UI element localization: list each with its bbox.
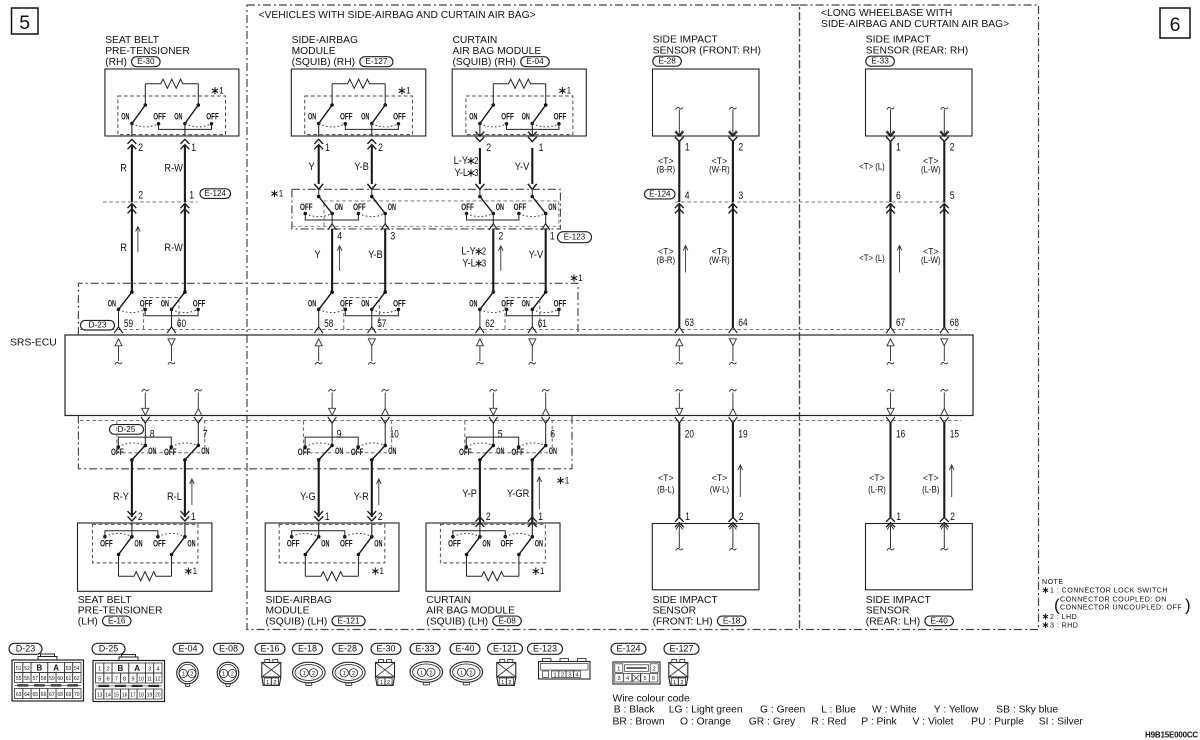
svg-text:W : White: W : White [872, 705, 917, 716]
svg-text:15: 15 [950, 428, 959, 440]
svg-text:<VEHICLES WITH SIDE-AIRBAG AND: <VEHICLES WITH SIDE-AIRBAG AND CURTAIN A… [259, 10, 536, 21]
svg-text:4: 4 [685, 190, 690, 202]
svg-text:MODULE: MODULE [292, 46, 336, 57]
svg-text:(: ( [1054, 596, 1060, 615]
svg-text:MODULE: MODULE [266, 606, 310, 617]
svg-text:12: 12 [155, 677, 161, 683]
svg-text:2: 2 [469, 670, 472, 676]
svg-text:2: 2 [231, 672, 234, 678]
svg-text:1: 1 [325, 142, 330, 154]
svg-text:E-30: E-30 [377, 644, 396, 654]
svg-text:5: 5 [98, 677, 101, 683]
svg-text:67: 67 [49, 692, 55, 698]
svg-text:5: 5 [19, 12, 30, 34]
svg-text:B: B [37, 664, 43, 673]
svg-text:2: 2 [138, 511, 143, 523]
svg-text:1: 1 [303, 671, 306, 677]
svg-text:<T>: <T> [869, 473, 885, 484]
svg-text:Y: Y [314, 249, 321, 261]
svg-text:OFF: OFF [501, 112, 514, 122]
svg-text:SENSOR: SENSOR [866, 606, 910, 617]
svg-text:<T> (L): <T> (L) [859, 253, 885, 264]
svg-text:(L-B): (L-B) [922, 485, 939, 496]
svg-text:SENSOR: SENSOR [653, 606, 697, 617]
svg-text:63: 63 [16, 692, 22, 698]
svg-text:2: 2 [138, 190, 143, 202]
svg-text:ON: ON [161, 298, 169, 308]
svg-text:(W-R): (W-R) [709, 255, 730, 266]
svg-text:OFF: OFF [300, 202, 313, 212]
svg-text:8: 8 [123, 677, 126, 683]
svg-text:64: 64 [738, 317, 747, 329]
svg-text:Y-GR: Y-GR [507, 488, 529, 500]
svg-text:Y-R: Y-R [354, 491, 369, 503]
svg-text:7: 7 [203, 428, 208, 440]
svg-text:1: 1 [222, 672, 225, 678]
svg-text:2: 2 [429, 670, 432, 676]
svg-text:ON: ON [388, 446, 396, 456]
svg-text:2: 2 [352, 671, 355, 677]
svg-text:61: 61 [66, 676, 72, 682]
svg-text:2: 2 [950, 142, 955, 154]
svg-text:OFF: OFF [393, 298, 406, 308]
svg-text:(L-W): (L-W) [921, 165, 941, 176]
svg-text:1: 1 [279, 189, 284, 200]
svg-text:52: 52 [24, 666, 30, 672]
svg-text:ON: ON [121, 112, 129, 122]
svg-text:2: 2 [482, 247, 487, 258]
svg-text:Y-G: Y-G [300, 491, 316, 503]
svg-text:1: 1 [896, 142, 901, 154]
svg-text:OFF: OFF [164, 447, 177, 457]
svg-text:(SQUIB) (RH): (SQUIB) (RH) [292, 57, 356, 68]
svg-text:G : Green: G : Green [760, 705, 805, 716]
svg-text:ON: ON [308, 112, 316, 122]
svg-text:1: 1 [460, 670, 463, 676]
svg-text:57: 57 [377, 318, 386, 330]
svg-text:1: 1 [896, 511, 901, 523]
svg-text:1: 1 [182, 672, 185, 678]
svg-text:55: 55 [16, 676, 22, 682]
svg-text:58: 58 [324, 318, 333, 330]
svg-text:ON: ON [482, 539, 490, 549]
svg-text:OFF: OFF [140, 298, 153, 308]
svg-text:OFF: OFF [193, 298, 206, 308]
svg-text:7: 7 [115, 677, 118, 683]
svg-text:CURTAIN: CURTAIN [426, 595, 471, 606]
svg-text:E-16: E-16 [261, 644, 280, 654]
svg-text:OFF: OFF [461, 202, 474, 212]
svg-text:B: B [118, 664, 124, 673]
svg-text:6: 6 [896, 190, 901, 202]
svg-text:E-18: E-18 [723, 615, 741, 625]
svg-text:1 : CONNECTOR LOCK SWITCH: 1 : CONNECTOR LOCK SWITCH [1050, 587, 1168, 595]
svg-text:4: 4 [575, 673, 578, 679]
svg-text:ON: ON [174, 112, 182, 122]
svg-text:Y-V: Y-V [529, 249, 544, 261]
svg-text:3 : RHD: 3 : RHD [1050, 622, 1078, 630]
svg-text:60: 60 [177, 318, 186, 330]
svg-text:53: 53 [66, 666, 72, 672]
svg-text:ON: ON [321, 539, 329, 549]
svg-text:2: 2 [474, 156, 479, 167]
svg-text:Y: Y [309, 161, 316, 173]
svg-text:CONNECTOR COUPLED: ON: CONNECTOR COUPLED: ON [1060, 596, 1167, 604]
svg-text:4: 4 [337, 231, 342, 243]
svg-text:OFF: OFF [393, 112, 406, 122]
svg-text:1: 1 [191, 511, 196, 523]
svg-text:ON: ON [496, 446, 504, 456]
svg-text:67: 67 [896, 317, 905, 329]
svg-text:(RH): (RH) [105, 57, 127, 68]
svg-text:D-23: D-23 [89, 320, 107, 330]
svg-text:E-40: E-40 [456, 644, 475, 654]
svg-text:Y-P: Y-P [462, 488, 477, 500]
svg-text:1: 1 [266, 680, 269, 686]
svg-text:1: 1 [539, 142, 544, 154]
svg-text:OFF: OFF [554, 112, 567, 122]
svg-text:1: 1 [540, 566, 545, 577]
svg-text:OFF: OFF [514, 202, 527, 212]
svg-text:Y : Yellow: Y : Yellow [934, 705, 979, 716]
svg-text:SIDE IMPACT: SIDE IMPACT [653, 35, 719, 46]
svg-text:SB : Sky blue: SB : Sky blue [996, 705, 1058, 716]
svg-text:Y-B: Y-B [368, 249, 383, 261]
svg-text:OFF: OFF [153, 539, 166, 549]
svg-text:CURTAIN: CURTAIN [453, 35, 498, 46]
svg-text:A: A [134, 664, 140, 673]
svg-text:ON: ON [201, 446, 209, 456]
svg-text:OFF: OFF [353, 202, 366, 212]
svg-text:OFF: OFF [351, 447, 364, 457]
svg-text:56: 56 [24, 676, 30, 682]
svg-text:51: 51 [16, 666, 22, 672]
svg-text:R : Red: R : Red [811, 717, 846, 728]
svg-text:2: 2 [561, 673, 564, 679]
svg-text:<T>: <T> [658, 473, 674, 484]
svg-text:(L-W): (L-W) [921, 255, 941, 266]
svg-text:(B-L): (B-L) [657, 485, 674, 496]
svg-text:D-25: D-25 [99, 644, 119, 654]
svg-text:2: 2 [378, 511, 383, 523]
svg-text:1: 1 [538, 511, 543, 523]
svg-text:1: 1 [343, 671, 346, 677]
svg-text:ON: ON [335, 202, 343, 212]
svg-text:ON: ON [187, 539, 195, 549]
svg-text:(FRONT: LH): (FRONT: LH) [653, 616, 713, 627]
svg-text:E-40: E-40 [930, 615, 948, 625]
svg-text:OFF: OFF [459, 447, 472, 457]
svg-text:59: 59 [124, 318, 133, 330]
svg-text:GR : Grey: GR : Grey [749, 717, 796, 728]
svg-text:2: 2 [499, 231, 504, 243]
svg-text:ON: ON [388, 202, 396, 212]
svg-text:L-Y: L-Y [454, 155, 469, 167]
svg-text:OFF: OFF [501, 298, 514, 308]
svg-text:1: 1 [578, 273, 583, 284]
svg-text:<T>: <T> [923, 473, 939, 484]
svg-text:ON: ON [308, 298, 316, 308]
svg-text:(B-R): (B-R) [657, 255, 676, 266]
svg-text:OFF: OFF [111, 447, 124, 457]
svg-text:ON: ON [522, 298, 530, 308]
svg-text:18: 18 [138, 693, 144, 699]
svg-text:10: 10 [138, 677, 144, 683]
svg-text:2: 2 [680, 680, 683, 686]
svg-text:ON: ON [496, 202, 504, 212]
svg-text:(LH): (LH) [78, 616, 98, 627]
svg-text:14: 14 [105, 693, 111, 699]
svg-text:O : Orange: O : Orange [680, 717, 731, 728]
svg-text:E-04: E-04 [179, 644, 198, 654]
svg-text:OFF: OFF [340, 539, 353, 549]
svg-text:P : Pink: P : Pink [861, 717, 897, 728]
svg-text:58: 58 [41, 676, 47, 682]
svg-text:R-W: R-W [164, 242, 183, 254]
svg-text:ON: ON [134, 539, 142, 549]
svg-text:(W-R): (W-R) [709, 165, 730, 176]
svg-text:OFF: OFF [554, 298, 567, 308]
svg-text:3: 3 [738, 190, 743, 202]
svg-text:B : Black: B : Black [614, 705, 655, 716]
svg-text:11: 11 [147, 677, 152, 683]
svg-text:OFF: OFF [448, 539, 461, 549]
svg-text:A: A [53, 664, 59, 673]
svg-text:1: 1 [380, 566, 385, 577]
svg-text:13: 13 [97, 693, 103, 699]
svg-text:1: 1 [420, 670, 423, 676]
svg-text:E-121: E-121 [493, 644, 517, 654]
svg-text:ON: ON [549, 446, 557, 456]
svg-text:E-28: E-28 [658, 56, 676, 66]
svg-text:6: 6 [550, 428, 555, 440]
svg-text:E-121: E-121 [338, 615, 360, 625]
svg-text:2: 2 [738, 142, 743, 154]
svg-text:OFF: OFF [100, 539, 113, 549]
svg-text:L : Blue: L : Blue [821, 705, 856, 716]
svg-text:65: 65 [33, 692, 39, 698]
svg-text:OFF: OFF [298, 447, 311, 457]
svg-text:1: 1 [325, 511, 330, 523]
svg-text:2: 2 [486, 511, 491, 523]
svg-text:E-123: E-123 [564, 233, 586, 242]
svg-text:5: 5 [950, 190, 955, 202]
svg-text:E-08: E-08 [219, 644, 238, 654]
svg-text:E-08: E-08 [498, 615, 516, 625]
svg-text:1: 1 [554, 673, 557, 679]
svg-text:E-124: E-124 [617, 644, 641, 654]
svg-text:(SQUIB) (LH): (SQUIB) (LH) [266, 616, 328, 627]
svg-text:4: 4 [156, 667, 159, 673]
svg-text:15: 15 [114, 693, 120, 699]
svg-text:SIDE-AIRBAG: SIDE-AIRBAG [292, 35, 358, 46]
svg-text:3: 3 [568, 673, 571, 679]
svg-text:2: 2 [739, 511, 744, 523]
svg-text:<LONG WHEELBASE WITH: <LONG WHEELBASE WITH [821, 8, 952, 19]
svg-text:(B-R): (B-R) [657, 165, 676, 176]
svg-text:2: 2 [508, 680, 511, 686]
svg-text:SI : Silver: SI : Silver [1039, 717, 1084, 728]
svg-text:6: 6 [652, 676, 655, 682]
svg-text:OFF: OFF [206, 112, 219, 122]
svg-text:2: 2 [387, 680, 390, 686]
svg-text:OFF: OFF [153, 112, 166, 122]
svg-text:63: 63 [685, 317, 694, 329]
svg-text:E-123: E-123 [533, 644, 557, 654]
svg-text:R: R [120, 163, 127, 175]
svg-text:ON: ON [335, 446, 343, 456]
svg-text:3: 3 [390, 231, 395, 243]
svg-text:OFF: OFF [501, 539, 514, 549]
svg-text:1: 1 [501, 680, 504, 686]
svg-text:ON: ON [469, 112, 477, 122]
svg-text:OFF: OFF [511, 447, 524, 457]
svg-text:1: 1 [406, 86, 411, 97]
svg-text:1: 1 [567, 86, 572, 97]
svg-text:2: 2 [190, 672, 193, 678]
svg-text:(SQUIB) (RH): (SQUIB) (RH) [453, 57, 517, 68]
svg-text:1: 1 [685, 511, 690, 523]
svg-text:Y-B: Y-B [354, 161, 369, 173]
svg-text:NOTE: NOTE [1042, 578, 1064, 586]
svg-text:19: 19 [738, 428, 747, 440]
svg-text:5: 5 [643, 676, 646, 682]
svg-text:4: 4 [626, 676, 629, 682]
svg-text:(SQUIB) (LH): (SQUIB) (LH) [426, 616, 488, 627]
svg-text:70: 70 [74, 692, 80, 698]
svg-text:2: 2 [312, 671, 315, 677]
svg-text:Wire colour code: Wire colour code [613, 694, 691, 705]
svg-text:ON: ON [108, 298, 116, 308]
svg-text:OFF: OFF [340, 298, 353, 308]
svg-text:2: 2 [653, 666, 656, 672]
svg-text:2: 2 [273, 680, 276, 686]
svg-text:H9B15E000CC: H9B15E000CC [1145, 731, 1198, 740]
svg-text:2: 2 [106, 667, 109, 673]
svg-text:ON: ON [535, 539, 543, 549]
svg-text:SEAT BELT: SEAT BELT [105, 35, 160, 46]
svg-text:E-04: E-04 [526, 56, 544, 66]
svg-text:62: 62 [485, 318, 494, 330]
svg-text:68: 68 [57, 692, 63, 698]
svg-text:17: 17 [130, 693, 136, 699]
svg-text:ON: ON [361, 298, 369, 308]
svg-text:SIDE IMPACT: SIDE IMPACT [653, 595, 719, 606]
svg-text:E-124: E-124 [649, 190, 671, 199]
svg-text:(W-L): (W-L) [710, 485, 729, 496]
svg-text:61: 61 [538, 318, 547, 330]
svg-text:SIDE-AIRBAG: SIDE-AIRBAG [266, 595, 332, 606]
svg-text:E-30: E-30 [137, 56, 155, 66]
svg-text:3: 3 [474, 168, 479, 179]
svg-text:E-18: E-18 [298, 644, 317, 654]
svg-text:ON: ON [469, 298, 477, 308]
svg-text:1: 1 [191, 142, 196, 154]
svg-text:E-16: E-16 [108, 615, 126, 625]
svg-text:20: 20 [685, 428, 694, 440]
svg-text:1: 1 [617, 666, 620, 672]
svg-text:Y-L: Y-L [455, 167, 469, 179]
svg-text:E-127: E-127 [365, 56, 387, 66]
svg-text:Y-L: Y-L [462, 258, 476, 270]
svg-text:BR : Brown: BR : Brown [613, 717, 665, 728]
svg-text:1: 1 [380, 680, 383, 686]
svg-text:1: 1 [219, 86, 224, 97]
svg-text:3: 3 [148, 667, 151, 673]
svg-text:L-Y: L-Y [461, 246, 476, 258]
svg-text:10: 10 [390, 428, 399, 440]
svg-text:E-28: E-28 [338, 644, 357, 654]
svg-text:1: 1 [685, 142, 690, 154]
svg-text:Y-V: Y-V [515, 161, 530, 173]
svg-text:ON: ON [522, 112, 530, 122]
svg-text:E-127: E-127 [670, 644, 694, 654]
svg-text:2: 2 [486, 142, 491, 154]
svg-text:R: R [120, 242, 127, 254]
svg-text:2: 2 [950, 511, 955, 523]
svg-text:64: 64 [24, 692, 30, 698]
svg-text:ON: ON [148, 446, 156, 456]
svg-text:LG : Light green: LG : Light green [669, 705, 743, 716]
svg-text:62: 62 [74, 676, 80, 682]
svg-text:20: 20 [155, 693, 161, 699]
svg-text:E-33: E-33 [871, 56, 889, 66]
svg-text:1: 1 [673, 680, 676, 686]
svg-text:6: 6 [106, 677, 109, 683]
svg-text:1: 1 [565, 476, 570, 487]
svg-text:SIDE-AIRBAG AND CURTAIN AIR BA: SIDE-AIRBAG AND CURTAIN AIR BAG> [821, 19, 1009, 30]
svg-text:OFF: OFF [340, 112, 353, 122]
svg-text:3: 3 [617, 676, 620, 682]
svg-text:57: 57 [33, 676, 39, 682]
svg-text:E-124: E-124 [205, 189, 227, 198]
svg-text:V : Violet: V : Violet [913, 717, 954, 728]
svg-text:(REAR: LH): (REAR: LH) [866, 616, 920, 627]
svg-text:68: 68 [950, 317, 959, 329]
svg-text:1: 1 [193, 566, 198, 577]
svg-text:16: 16 [896, 428, 905, 440]
svg-text:19: 19 [147, 693, 153, 699]
svg-text:69: 69 [66, 692, 72, 698]
svg-text:D-23: D-23 [16, 644, 36, 654]
svg-text:SRS-ECU: SRS-ECU [10, 338, 57, 349]
svg-text:3: 3 [482, 259, 487, 270]
svg-text:CONNECTOR UNCOUPLED: OFF: CONNECTOR UNCOUPLED: OFF [1060, 604, 1182, 612]
svg-text:R-L: R-L [167, 491, 182, 503]
svg-text:9: 9 [131, 677, 134, 683]
svg-text:PU : Purple: PU : Purple [971, 717, 1024, 728]
svg-text:): ) [1185, 596, 1191, 615]
svg-text:5: 5 [498, 428, 503, 440]
svg-text:R-Y: R-Y [113, 491, 129, 503]
svg-text:E-33: E-33 [416, 644, 435, 654]
svg-text:59: 59 [49, 676, 55, 682]
svg-text:54: 54 [74, 666, 80, 672]
svg-text:(L-R): (L-R) [868, 485, 886, 496]
svg-text:66: 66 [41, 692, 47, 698]
svg-text:R-W: R-W [164, 163, 183, 175]
svg-text:ON: ON [361, 112, 369, 122]
svg-text:SEAT BELT: SEAT BELT [78, 595, 133, 606]
svg-text:9: 9 [337, 428, 342, 440]
svg-text:SIDE IMPACT: SIDE IMPACT [866, 595, 932, 606]
svg-text:D-25: D-25 [118, 424, 136, 434]
svg-text:<T> (L): <T> (L) [859, 162, 885, 173]
svg-text:2: 2 [138, 142, 143, 154]
svg-text:<T>: <T> [712, 473, 728, 484]
svg-text:2: 2 [378, 142, 383, 154]
svg-text:16: 16 [122, 693, 128, 699]
